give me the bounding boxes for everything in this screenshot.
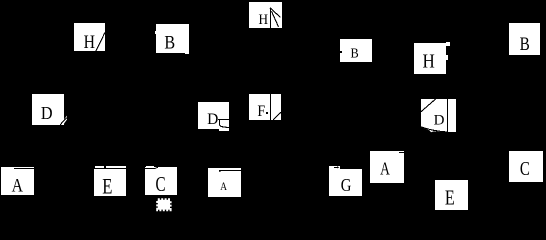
svg-text:B: B: [350, 45, 358, 61]
wire (horizontal line over A11): [14, 168, 34, 169]
svg-text:D: D: [41, 103, 53, 123]
svg-text:A: A: [380, 160, 390, 179]
node G15: [329, 166, 362, 196]
node C18: [509, 151, 543, 182]
svg-text:C: C: [520, 157, 530, 180]
wire (cursor arrow over H1): [270, 8, 280, 28]
node E17: [435, 180, 468, 210]
svg-text:D: D: [207, 111, 218, 128]
svg-text:A: A: [220, 180, 227, 193]
svg-text:H: H: [84, 32, 95, 52]
node D10: [421, 99, 456, 132]
wire (vertical line through D10): [447, 99, 448, 132]
wire (arrow over D8): [218, 119, 230, 128]
wire (line over C13 top-left): [145, 167, 158, 169]
node B3: [155, 24, 189, 54]
chip (serrated component under C13): [158, 200, 170, 210]
node E12: [94, 166, 126, 199]
node C13: [145, 166, 177, 195]
wire (dog-ear diagonal on F9): [273, 112, 281, 120]
node A16: [370, 151, 404, 183]
wire (diagonal into D10): [421, 99, 436, 112]
node B4: [340, 39, 372, 62]
svg-text:B: B: [164, 31, 175, 53]
node B6: [509, 23, 540, 55]
node D8: [198, 102, 229, 131]
wire (tick at A16 top right): [399, 152, 404, 153]
svg-text:B: B: [520, 33, 530, 54]
node H1 (top center label box): [249, 2, 282, 28]
node D7: [32, 94, 67, 125]
wire (bottom curve through D10): [421, 127, 447, 132]
node A11: [1, 167, 34, 196]
wire (vertical line through F9): [270, 94, 271, 120]
wire (diagonal through H2): [96, 32, 105, 51]
node H2 (upper left label box): [74, 23, 105, 52]
svg-text:H: H: [423, 50, 435, 73]
svg-text:F: F: [257, 103, 265, 120]
node A14: [208, 168, 241, 197]
svg-text:E: E: [445, 187, 455, 211]
node H5: [414, 42, 450, 74]
svg-text:D: D: [434, 112, 445, 128]
svg-text:G: G: [341, 175, 352, 196]
wire (horizontal line over A14): [219, 170, 241, 172]
svg-text:E: E: [102, 174, 112, 199]
node F9: [249, 94, 281, 120]
wire (dog-ear diagonal on D7): [60, 118, 67, 125]
svg-text:H: H: [259, 11, 269, 28]
svg-text:C: C: [155, 172, 165, 195]
svg-text:A: A: [12, 175, 24, 195]
wire (arrow in G15 tab): [334, 166, 339, 168]
